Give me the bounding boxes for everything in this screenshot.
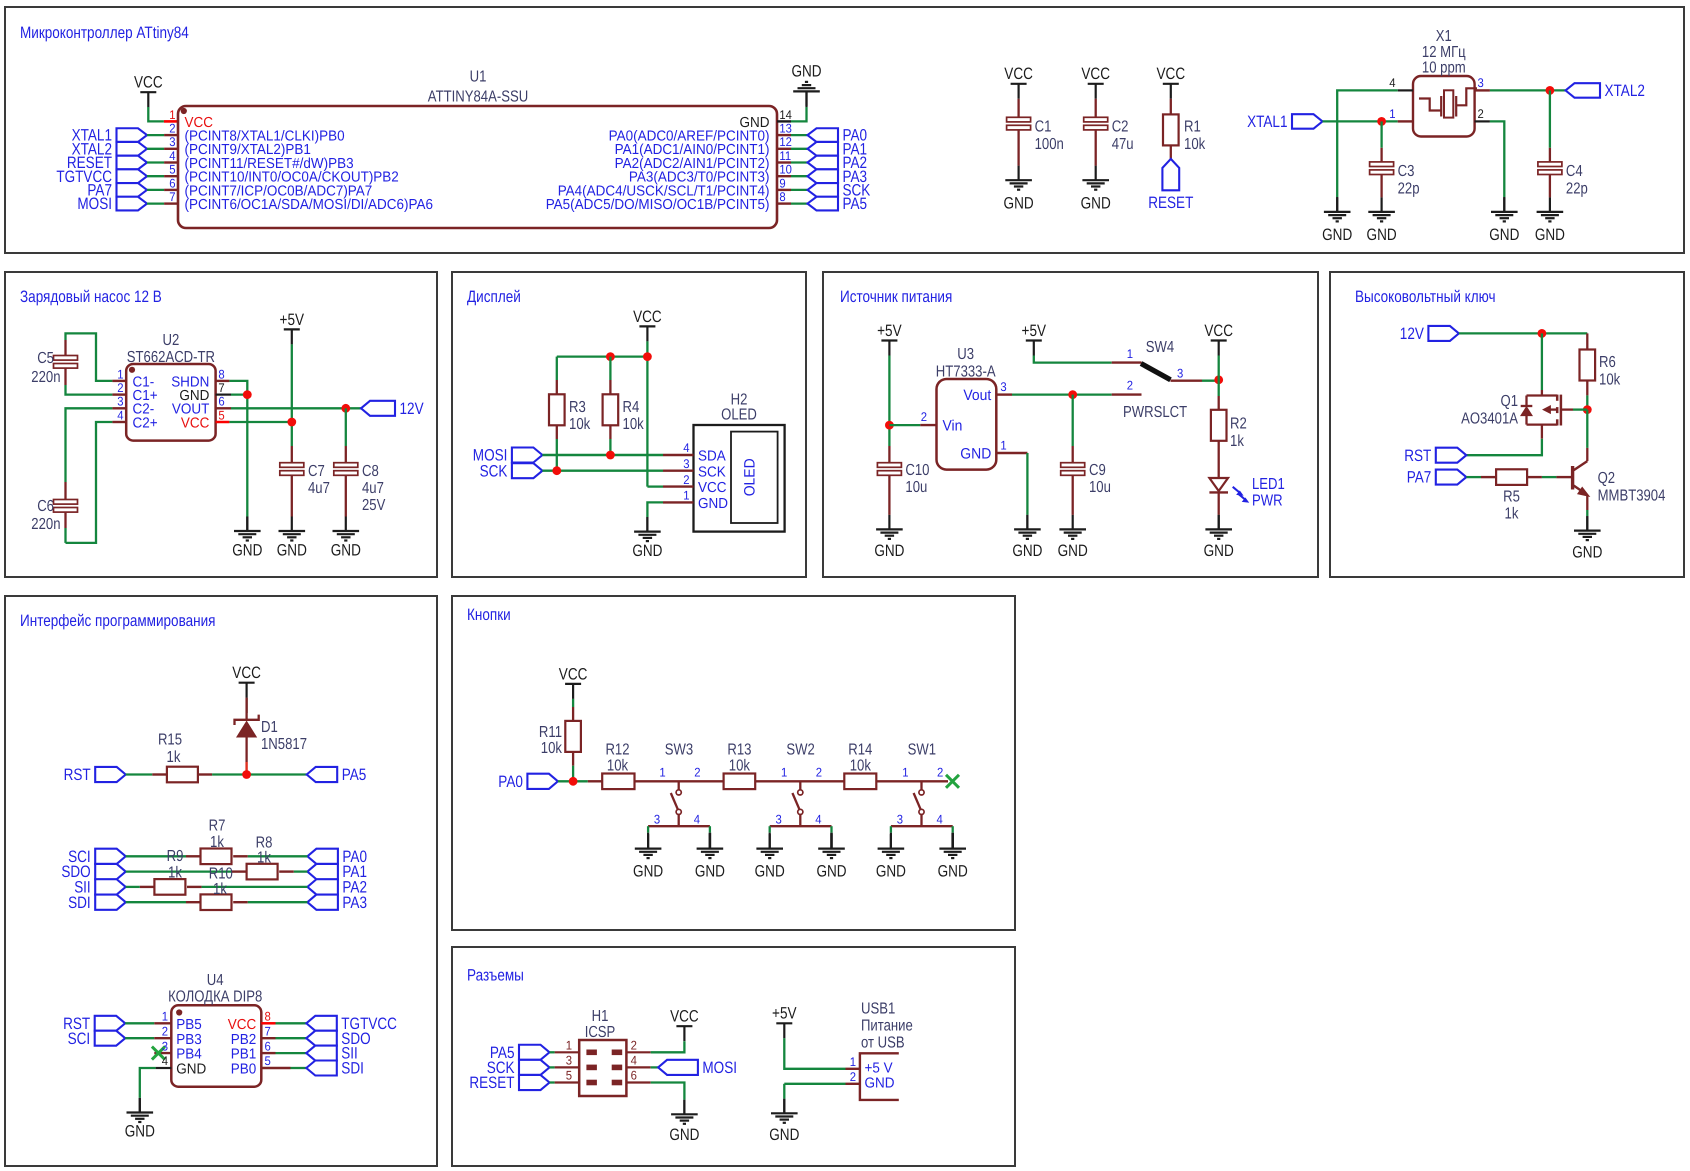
U2 right pin names bbox=[171, 374, 209, 431]
U1 left pin numbers 1-7 bbox=[169, 108, 175, 204]
svg-text:2: 2 bbox=[162, 1024, 168, 1038]
svg-text:+5V: +5V bbox=[772, 1005, 797, 1023]
wire U3 GND down bbox=[1026, 453, 1028, 515]
diode D1 1N5817 (schottky) bbox=[235, 698, 308, 771]
net flag RESET (U1 pin 4) bbox=[67, 154, 147, 172]
net flag XTAL2 (U1 pin 3) bbox=[72, 140, 147, 158]
svg-text:2: 2 bbox=[850, 1070, 856, 1084]
svg-text:4: 4 bbox=[683, 441, 689, 455]
net flag SCI (prog rows) bbox=[68, 848, 126, 866]
wire MOSI to H2 SDA bbox=[542, 454, 663, 457]
net flag PA3 bbox=[808, 168, 868, 186]
net flag SCK (display) bbox=[480, 462, 543, 480]
svg-text:10k: 10k bbox=[541, 740, 563, 757]
svg-text:Vin: Vin bbox=[943, 418, 963, 435]
svg-text:12V: 12V bbox=[400, 400, 424, 418]
resistor R15 1k bbox=[152, 732, 212, 783]
svg-text:1N5817: 1N5817 bbox=[261, 736, 307, 753]
svg-text:10k: 10k bbox=[729, 758, 751, 775]
X1 pin4 stub (black) bbox=[1389, 76, 1413, 91]
resistor R3 10k bbox=[549, 357, 591, 471]
svg-text:8: 8 bbox=[779, 190, 785, 204]
svg-text:5: 5 bbox=[218, 408, 224, 422]
svg-text:H1: H1 bbox=[592, 1008, 609, 1025]
supply +5V (USB) bbox=[772, 1005, 797, 1039]
svg-text:VCC: VCC bbox=[633, 308, 662, 326]
ground GND (SW3 pin4) bbox=[695, 833, 725, 881]
U1 reference designator bbox=[428, 69, 528, 106]
supply +5V (regulator input) bbox=[877, 322, 902, 356]
wire H1 pin2 to VCC bbox=[651, 1041, 685, 1052]
net flag XTAL1 (U1 pin 2) bbox=[72, 127, 147, 145]
U4 right pin names bbox=[228, 1017, 257, 1078]
resistor R12 10k bbox=[602, 742, 634, 790]
svg-text:2: 2 bbox=[117, 381, 123, 395]
frame box: Разъемы bbox=[452, 947, 1015, 1166]
svg-text:Интерфейс программирования: Интерфейс программирования bbox=[20, 612, 216, 630]
svg-text:22p: 22p bbox=[1398, 181, 1420, 198]
LED LED1 PWR bbox=[1209, 441, 1284, 515]
wire X1 pin4 to GND bbox=[1337, 90, 1398, 197]
wire RST to U4 pin1 bbox=[125, 1022, 171, 1024]
X1 pin1 stub bbox=[1389, 107, 1413, 122]
resistor R5 1k bbox=[1481, 469, 1556, 522]
svg-text:1: 1 bbox=[1389, 107, 1395, 121]
svg-text:U1: U1 bbox=[470, 69, 487, 86]
junction R4/MOSI bbox=[606, 451, 615, 460]
svg-text:4: 4 bbox=[631, 1054, 637, 1068]
svg-text:VCC: VCC bbox=[1081, 65, 1110, 83]
junction VCC/R2 bbox=[1214, 375, 1223, 384]
svg-text:3: 3 bbox=[1000, 380, 1006, 394]
pin stub bbox=[777, 134, 791, 136]
wire H1 pin6 to GND bbox=[651, 1083, 685, 1100]
svg-text:8: 8 bbox=[218, 367, 224, 381]
wire C5 bottom to U2 pin2 bbox=[66, 368, 113, 395]
U2 pin7 GND stub bbox=[216, 394, 248, 396]
svg-text:GND: GND bbox=[938, 862, 968, 880]
wire VCC down to R2 bbox=[1218, 356, 1220, 397]
net flag 12V (HV) bbox=[1400, 325, 1459, 343]
U3 Vin stub bbox=[920, 410, 936, 425]
net flag RST (prog) bbox=[64, 766, 126, 784]
svg-text:14: 14 bbox=[779, 108, 792, 122]
junction D1/RST/PA5 bbox=[242, 770, 251, 779]
junction Vout/C9 bbox=[1068, 390, 1077, 399]
U2 pin6 VOUT stub+wire to 12V bbox=[216, 407, 361, 409]
wire Vout to SW4 pin2 bbox=[1012, 393, 1112, 395]
SW4 pin2 stub bbox=[1112, 379, 1142, 395]
switch SW2 bbox=[770, 742, 832, 833]
svg-text:RESET: RESET bbox=[1148, 194, 1193, 212]
crystal X1 body bbox=[1413, 76, 1477, 137]
svg-text:1k: 1k bbox=[257, 850, 272, 867]
svg-text:R13: R13 bbox=[727, 742, 751, 759]
resistor R11 10k bbox=[539, 699, 581, 781]
resistor R8 1k row2 bbox=[126, 835, 308, 880]
svg-text:C3: C3 bbox=[1398, 163, 1415, 180]
wire XTAL1 to U1 bbox=[147, 134, 164, 136]
ground GND (U2) bbox=[232, 517, 262, 560]
supply +5V (switch) bbox=[1022, 322, 1047, 356]
H1 right pin stubs bbox=[626, 1052, 650, 1082]
U4 pin6 stub + wire bbox=[261, 1052, 306, 1054]
junction node XTAL2/C4 bbox=[1546, 86, 1555, 95]
net flag SCK (ICSP) bbox=[487, 1059, 550, 1077]
pin stub bbox=[164, 189, 178, 191]
capacitor C3 22p bbox=[1370, 121, 1420, 197]
U4 left pin names bbox=[176, 1017, 206, 1078]
svg-text:R5: R5 bbox=[1503, 489, 1520, 506]
svg-text:U2: U2 bbox=[163, 332, 180, 349]
pin stub bbox=[777, 161, 791, 163]
IC U1 ATTINY84A-SSU body bbox=[178, 106, 777, 228]
svg-text:7: 7 bbox=[218, 381, 224, 395]
svg-text:10u: 10u bbox=[1089, 479, 1111, 496]
svg-text:SCK: SCK bbox=[480, 462, 508, 480]
svg-text:GND: GND bbox=[1572, 544, 1602, 562]
svg-text:220n: 220n bbox=[31, 369, 60, 386]
capacitor C6 220n bbox=[31, 498, 77, 533]
svg-text:3: 3 bbox=[897, 812, 903, 826]
svg-text:OLED: OLED bbox=[721, 407, 757, 424]
svg-text:VCC: VCC bbox=[134, 74, 163, 92]
SW4 label bbox=[1146, 339, 1174, 356]
net flag MOSI (display) bbox=[473, 447, 543, 465]
wire PA0 to R12 bbox=[558, 780, 588, 782]
svg-text:2: 2 bbox=[1127, 379, 1133, 393]
svg-text:4: 4 bbox=[169, 149, 175, 163]
svg-text:PA5: PA5 bbox=[843, 195, 868, 213]
junction Vin bbox=[885, 421, 894, 430]
wire C5 top to U2 pin1 bbox=[66, 333, 113, 381]
svg-text:GND: GND bbox=[176, 1062, 206, 1078]
resistor R4 10k bbox=[603, 357, 645, 455]
svg-text:3: 3 bbox=[566, 1054, 572, 1068]
svg-text:1: 1 bbox=[169, 108, 175, 122]
junction R6/gate/Q2 bbox=[1583, 405, 1592, 414]
svg-text:LED1: LED1 bbox=[1252, 476, 1285, 493]
svg-text:Q1: Q1 bbox=[1501, 393, 1519, 410]
resistor R2 1k bbox=[1211, 396, 1247, 450]
USB1 pin numbers bbox=[850, 1055, 856, 1084]
title Зарядовый насос 12 В bbox=[20, 288, 162, 306]
ground GND (C3) bbox=[1367, 197, 1397, 244]
svg-text:R12: R12 bbox=[605, 742, 629, 759]
USB1 pin2 stub bbox=[846, 1083, 860, 1085]
svg-text:SDA: SDA bbox=[698, 449, 726, 465]
U3 pin names bbox=[943, 387, 993, 462]
wire TGTVCC to U1 bbox=[147, 175, 164, 177]
svg-text:RESET: RESET bbox=[469, 1074, 514, 1092]
svg-text:PA7: PA7 bbox=[1407, 469, 1432, 487]
net flag SII (prog rows) bbox=[74, 879, 126, 897]
svg-text:R3: R3 bbox=[569, 399, 586, 416]
svg-text:PWRSLCT: PWRSLCT bbox=[1123, 404, 1187, 421]
svg-text:PA5(ADC5/DO/MISO/OC1B/PCINT5): PA5(ADC5/DO/MISO/OC1B/PCINT5) bbox=[546, 197, 770, 213]
svg-text:6: 6 bbox=[169, 176, 175, 190]
wire X1 pin2 to GND bbox=[1490, 121, 1504, 197]
resistor R6 10k bbox=[1580, 333, 1622, 409]
svg-text:U3: U3 bbox=[957, 346, 974, 363]
svg-text:Высоковольтный ключ: Высоковольтный ключ bbox=[1355, 288, 1496, 306]
supply +5V (charge pump) bbox=[280, 311, 305, 345]
svg-text:C7: C7 bbox=[308, 463, 325, 480]
svg-text:PA3: PA3 bbox=[342, 894, 367, 912]
connector H2 OLED body bbox=[694, 425, 785, 532]
svg-text:SCK: SCK bbox=[698, 464, 726, 480]
net flag PA5 (prog) bbox=[307, 766, 367, 784]
net flag SDO (U4) bbox=[306, 1030, 370, 1048]
svg-text:GND: GND bbox=[1004, 195, 1034, 213]
wire U1 to PA2 flag bbox=[791, 161, 808, 163]
svg-text:Q2: Q2 bbox=[1598, 470, 1616, 487]
title Высоковольтный ключ bbox=[1355, 288, 1496, 306]
wire PA0 row maroon segment 1 bbox=[588, 780, 602, 782]
svg-text:5: 5 bbox=[265, 1054, 271, 1068]
net flag TGTVCC (U1 pin 5) bbox=[56, 168, 147, 186]
resistor R10 1k row4 bbox=[126, 865, 308, 910]
ground GND (pin4) bbox=[1322, 197, 1352, 244]
net flag RESET (ICSP) bbox=[469, 1074, 549, 1092]
svg-text:3: 3 bbox=[1177, 367, 1183, 381]
svg-text:2: 2 bbox=[631, 1039, 637, 1053]
svg-text:C4: C4 bbox=[1566, 163, 1583, 180]
svg-text:C8: C8 bbox=[362, 463, 379, 480]
svg-text:C2: C2 bbox=[1112, 119, 1129, 136]
svg-text:25V: 25V bbox=[362, 497, 386, 514]
ground GND (U3) bbox=[1012, 515, 1042, 560]
wire SCK to H2 SCK bbox=[542, 470, 663, 472]
svg-text:GND: GND bbox=[125, 1123, 155, 1141]
svg-text:1: 1 bbox=[566, 1039, 572, 1053]
wire +5V to Vin/C10 bbox=[888, 356, 890, 447]
H1 pads bbox=[586, 1050, 622, 1086]
svg-text:C1: C1 bbox=[1035, 119, 1052, 136]
svg-text:(PCINT6/OC1A/SDA/MOSI/DI/ADC6): (PCINT6/OC1A/SDA/MOSI/DI/ADC6)PA6 bbox=[185, 197, 434, 213]
svg-text:R15: R15 bbox=[158, 732, 182, 749]
svg-text:C9: C9 bbox=[1089, 462, 1106, 479]
net flag SDI (prog rows) bbox=[68, 894, 126, 912]
pin stub bbox=[777, 175, 791, 177]
svg-text:22p: 22p bbox=[1566, 181, 1588, 198]
ground GND (C8) bbox=[331, 517, 361, 560]
svg-text:R1: R1 bbox=[1184, 119, 1201, 136]
svg-text:10k: 10k bbox=[1599, 372, 1621, 389]
svg-text:11: 11 bbox=[779, 149, 791, 163]
frame box: Источник питания bbox=[823, 272, 1318, 577]
net flag SCK bbox=[808, 182, 871, 200]
frame box: Высоковольтный ключ bbox=[1330, 272, 1684, 577]
H1 pin numbers bbox=[566, 1039, 637, 1083]
ground GND (Q2) bbox=[1572, 516, 1602, 561]
svg-text:+5 V: +5 V bbox=[865, 1061, 893, 1077]
svg-text:КОЛОДКА DIP8: КОЛОДКА DIP8 bbox=[168, 989, 262, 1006]
U4 pin8 stub (red) + wire bbox=[261, 1022, 306, 1025]
LED1 light arrows bbox=[1233, 487, 1249, 502]
capacitor C9 10u bbox=[1061, 395, 1111, 515]
svg-text:2: 2 bbox=[937, 765, 943, 779]
capacitor C8 4u7 25V bbox=[334, 408, 386, 516]
ground GND (C4) bbox=[1535, 197, 1565, 244]
svg-text:4: 4 bbox=[815, 812, 821, 826]
svg-text:VCC: VCC bbox=[670, 1008, 699, 1026]
svg-text:X1: X1 bbox=[1436, 28, 1452, 45]
label PWRSLCT bbox=[1123, 404, 1187, 421]
svg-text:GND: GND bbox=[769, 1126, 799, 1144]
net flag MOSI (U1 pin 7) bbox=[77, 195, 147, 213]
svg-text:GND: GND bbox=[1081, 195, 1111, 213]
H2 pin numbers bbox=[683, 441, 689, 502]
junction +5V/VCC pin bbox=[287, 418, 296, 427]
svg-text:XTAL1: XTAL1 bbox=[1247, 113, 1287, 131]
svg-text:1: 1 bbox=[162, 1010, 168, 1024]
H2 pin stubs bbox=[663, 455, 694, 502]
svg-text:47u: 47u bbox=[1112, 136, 1134, 153]
svg-text:MMBT3904: MMBT3904 bbox=[1598, 488, 1666, 505]
ground GND (ICSP) bbox=[669, 1100, 699, 1144]
ground GND (display) bbox=[632, 517, 662, 560]
wire U1 to PA3 flag bbox=[791, 175, 808, 177]
junction VOUT/C8 bbox=[341, 404, 350, 413]
capacitor C1 100n bbox=[1004, 65, 1064, 212]
ground GND (SW2 pin4) bbox=[816, 833, 846, 881]
pin stub bbox=[777, 148, 791, 150]
svg-text:10k: 10k bbox=[1184, 136, 1206, 153]
svg-text:U4: U4 bbox=[207, 972, 224, 989]
svg-text:4u7: 4u7 bbox=[362, 480, 384, 497]
wire H2 GND pin bbox=[647, 502, 663, 517]
wire +5V to SW4 pin1 bbox=[1034, 356, 1112, 363]
svg-text:OLED: OLED bbox=[741, 458, 758, 496]
frame box: Дисплей bbox=[452, 272, 806, 577]
IC U2 ST662ACD-TR body bbox=[126, 364, 215, 441]
net flag SCI (U4) bbox=[68, 1030, 126, 1048]
net flag 12V bbox=[361, 400, 424, 418]
svg-text:12 МГц: 12 МГц bbox=[1422, 44, 1466, 61]
svg-text:GND: GND bbox=[698, 496, 728, 512]
svg-text:1: 1 bbox=[1127, 347, 1133, 361]
svg-text:ATTINY84A-SSU: ATTINY84A-SSU bbox=[428, 89, 528, 106]
IC U4 КОЛОДКА DIP8 body bbox=[171, 1005, 261, 1086]
U2 left pin numbers bbox=[117, 367, 123, 422]
U3 reference designator bbox=[936, 346, 996, 381]
net flag PA1 (prog rows) bbox=[307, 863, 367, 881]
svg-text:HT7333-A: HT7333-A bbox=[936, 364, 996, 381]
H1 reference designator bbox=[585, 1008, 616, 1041]
svg-text:Vout: Vout bbox=[963, 387, 992, 404]
wire PA7 to R5 bbox=[1466, 476, 1481, 478]
connector USB1 body bbox=[860, 1053, 899, 1100]
switch SW3 bbox=[648, 742, 710, 833]
pin stub bbox=[777, 189, 791, 191]
ground GND (C10) bbox=[874, 515, 904, 560]
wire VCC vertical to H2 pin2 bbox=[647, 341, 663, 486]
svg-text:1k: 1k bbox=[213, 881, 228, 898]
svg-text:+5V: +5V bbox=[280, 311, 305, 329]
svg-text:220n: 220n bbox=[31, 516, 60, 533]
frame box: Зарядовый насос 12 В bbox=[5, 272, 437, 577]
resistor R14 10k bbox=[844, 742, 876, 790]
transistor Q1 AO3401A (P-MOSFET) bbox=[1461, 333, 1587, 438]
svg-text:2: 2 bbox=[1478, 107, 1484, 121]
svg-text:D1: D1 bbox=[261, 719, 278, 736]
capacitor C4 22p bbox=[1538, 90, 1588, 197]
USB1 pin1 stub bbox=[846, 1068, 860, 1070]
ground GND (USB) bbox=[769, 1099, 799, 1144]
svg-text:4: 4 bbox=[694, 812, 700, 826]
wire PA7 to U1 bbox=[147, 189, 164, 191]
svg-text:GND: GND bbox=[1535, 226, 1565, 244]
svg-text:6: 6 bbox=[631, 1069, 637, 1083]
SW4 pin3 stub bbox=[1171, 367, 1203, 381]
svg-text:1: 1 bbox=[781, 765, 787, 779]
ground GND (SW1 pin3) bbox=[876, 833, 906, 881]
svg-text:VCC: VCC bbox=[559, 665, 588, 683]
ground GND (SW1 pin4) bbox=[938, 833, 968, 881]
USB1 labels bbox=[861, 1001, 913, 1052]
junction node XTAL1/C3 bbox=[1377, 117, 1386, 126]
net flag PA2 (prog rows) bbox=[307, 879, 367, 897]
svg-text:6: 6 bbox=[265, 1039, 271, 1053]
title Разъемы bbox=[467, 967, 524, 985]
title Дисплей bbox=[467, 288, 521, 306]
svg-text:Микроконтроллер ATtiny84: Микроконтроллер ATtiny84 bbox=[20, 24, 189, 42]
svg-text:7: 7 bbox=[169, 190, 175, 204]
junction R4 top bbox=[606, 352, 615, 361]
svg-text:6: 6 bbox=[218, 395, 224, 409]
switch SW1 bbox=[891, 742, 953, 833]
H2 reference designator bbox=[721, 392, 757, 424]
U2 reference designator bbox=[127, 332, 215, 366]
net flag PA7 (U1 pin 6) bbox=[87, 182, 147, 200]
net flag SDI (U4) bbox=[306, 1060, 364, 1078]
svg-text:GND: GND bbox=[1322, 226, 1352, 244]
svg-text:XTAL2: XTAL2 bbox=[1605, 82, 1645, 100]
transistor Q2 MMBT3904 (NPN) bbox=[1556, 410, 1665, 516]
net flag PA7 (HV) bbox=[1407, 469, 1467, 487]
wire Vin bbox=[889, 424, 920, 426]
title Интерфейс программирования bbox=[20, 612, 216, 630]
svg-text:GND: GND bbox=[695, 862, 725, 880]
svg-text:GND: GND bbox=[277, 542, 307, 560]
svg-text:GND: GND bbox=[331, 542, 361, 560]
title Источник питания bbox=[840, 288, 952, 306]
U3 Vout stub pin3 bbox=[996, 380, 1012, 395]
svg-text:R6: R6 bbox=[1599, 354, 1616, 371]
svg-text:1: 1 bbox=[1000, 439, 1006, 453]
svg-text:GND: GND bbox=[232, 542, 262, 560]
wire U2 pin3 to C6 top bbox=[66, 408, 113, 499]
svg-text:1k: 1k bbox=[210, 834, 225, 851]
wire VCC to U1 pin 1 bbox=[148, 107, 164, 121]
wire Q1 drain to RST bbox=[1466, 439, 1542, 456]
net flag PA1 bbox=[808, 140, 868, 158]
svg-text:Зарядовый насос 12 В: Зарядовый насос 12 В bbox=[20, 288, 162, 306]
svg-text:SW2: SW2 bbox=[786, 742, 814, 759]
svg-text:C10: C10 bbox=[905, 462, 929, 479]
wire U1 to PA0 flag bbox=[791, 134, 808, 136]
svg-text:8: 8 bbox=[265, 1010, 271, 1024]
svg-text:2: 2 bbox=[816, 765, 822, 779]
net flag XTAL2 bbox=[1566, 82, 1645, 100]
svg-text:R9: R9 bbox=[167, 848, 184, 865]
svg-text:2: 2 bbox=[694, 765, 700, 779]
capacitor C5 220n bbox=[31, 350, 77, 386]
resistor R1 10k bbox=[1157, 65, 1207, 159]
svg-text:PB4: PB4 bbox=[176, 1047, 202, 1063]
wire +5V down through to C7 bbox=[291, 344, 293, 446]
